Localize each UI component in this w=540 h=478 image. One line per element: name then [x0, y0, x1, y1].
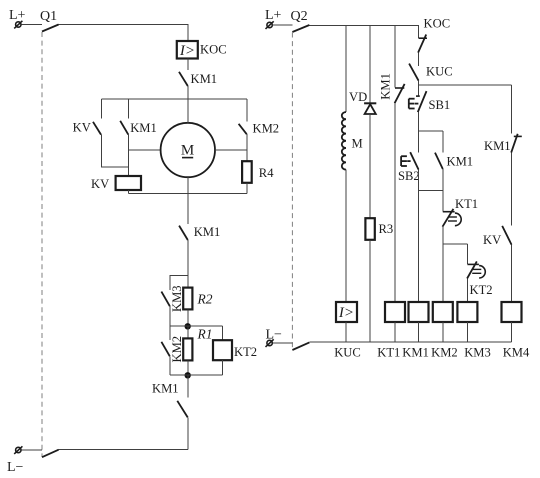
svg-text:KUC: KUC: [334, 346, 361, 360]
wire KT2 to KM3 coil: [466, 279, 468, 303]
wire armature top bus: [101, 98, 247, 100]
wire node to KT2 coil: [221, 326, 223, 340]
contact KM1 aux (seal-in): [435, 153, 443, 169]
wire KM1 contact to KV coil: [127, 135, 129, 176]
contact KV: [502, 226, 511, 245]
wire motor bottom: [187, 177, 189, 224]
wire bus to diode VD: [369, 26, 371, 104]
undervoltage relay coil KUC: [336, 302, 357, 322]
switch Q2 lower pole: [292, 342, 309, 350]
svg-text:KM1: KM1: [191, 72, 218, 86]
svg-text:KT2: KT2: [470, 283, 493, 297]
wire KM2 coil to bottom bus: [442, 322, 444, 342]
wire KT2 to bottom node: [221, 360, 223, 375]
wire KT1 contact down: [442, 227, 444, 244]
wire KM1 to R2 section: [187, 240, 189, 276]
wire field winding to KUC coil: [345, 170, 347, 302]
switch Q1 upper pole: [42, 25, 59, 32]
wire top to KM1 aux: [442, 131, 444, 152]
svg-text:KOC: KOC: [200, 43, 227, 57]
contact KM1 (armature): [120, 121, 128, 135]
svg-text:KV: KV: [73, 121, 91, 135]
wire node to KT1 contact: [442, 191, 444, 212]
svg-text:KV: KV: [91, 177, 109, 191]
switch Q1 lower pole: [42, 450, 59, 458]
diode VD: [364, 103, 376, 114]
svg-text:KM1: KM1: [447, 155, 474, 169]
node junction R2/R1: [170, 323, 223, 329]
contactor coil KM1: [409, 302, 429, 322]
node bottom junction: [170, 372, 223, 378]
svg-text:SB1: SB1: [429, 98, 451, 112]
contact KM2 (R1 shunt): [161, 342, 169, 357]
svg-text:KT1: KT1: [377, 346, 400, 360]
contactor coil KM3: [457, 302, 477, 322]
wire to KT2 contact: [466, 244, 468, 264]
wire KT1 coil to bottom bus: [394, 322, 396, 342]
terminal L- (left): [14, 446, 22, 454]
svg-text:KM2: KM2: [170, 336, 184, 363]
motor M armature: [161, 123, 215, 177]
time relay coil KT1: [385, 302, 405, 322]
wire to motor left terminal: [128, 149, 160, 151]
svg-text:KUC: KUC: [426, 65, 453, 79]
svg-text:KT1: KT1: [455, 197, 478, 211]
wire armature bottom bus: [128, 193, 246, 195]
wire KM1 to top bus: [187, 86, 189, 99]
wire bus to KM1 contact: [127, 99, 129, 119]
wire SB2 down: [418, 170, 420, 191]
wire control bottom bus: [309, 341, 511, 343]
wire motor right to KM2 branch: [215, 149, 247, 151]
wire KM1 break to KV contact: [511, 153, 513, 226]
wire KUC to SB1: [418, 81, 420, 97]
contact KUC: [409, 64, 418, 81]
contact KM1 (below motor): [179, 226, 188, 240]
terminal L+ (right): [266, 21, 274, 29]
contact KM3 (R2 shunt): [161, 292, 169, 307]
terminal L+ (left): [14, 21, 22, 29]
contact KM1 break (KM4 branch): [511, 134, 522, 153]
resistor R1: [183, 326, 192, 375]
svg-text:SB2: SB2: [398, 169, 420, 183]
wire R2 bypass top: [170, 276, 188, 290]
contactor coil KM4: [502, 302, 522, 322]
svg-text:L+: L+: [265, 8, 282, 23]
svg-text:L−: L−: [266, 328, 283, 343]
pushbutton SB2 (start): [401, 152, 418, 169]
wire L- to Q1: [21, 449, 42, 451]
contact KM1 break (KT1 feed): [395, 84, 405, 103]
svg-text:VD: VD: [349, 90, 367, 104]
contact KT2 time-delay: [467, 261, 485, 278]
wire bus to KM1 break contact: [394, 26, 396, 88]
wire to KM1 coil: [418, 191, 420, 302]
wire bus to motor top: [187, 99, 189, 123]
svg-text:KM1: KM1: [484, 139, 511, 153]
wire to KM2 coil: [442, 244, 444, 302]
wire bus to KV contact: [100, 99, 102, 119]
wire parallel top: [419, 130, 443, 132]
wire KOC to KUC contact: [418, 53, 420, 66]
contactor coil KM2: [433, 302, 453, 322]
wire diode to R3: [369, 114, 371, 218]
svg-text:R3: R3: [379, 222, 394, 236]
svg-text:KM4: KM4: [503, 346, 530, 360]
wire SB1 to parallel section: [418, 112, 420, 131]
contact KOC break: [418, 35, 427, 53]
wire bottom return: [59, 449, 188, 451]
wire KM1 break to KT1 coil: [394, 103, 396, 302]
wire L+ to Q1: [21, 24, 42, 26]
wire KOC to KM1: [187, 59, 189, 71]
wire KM3 coil to bottom bus: [466, 322, 468, 342]
svg-text:KM3: KM3: [170, 285, 184, 312]
wire KV contact down and over: [101, 135, 128, 167]
svg-text:KM1: KM1: [130, 121, 157, 135]
svg-text:KM1: KM1: [194, 225, 221, 239]
wire node to KT2 branch: [443, 243, 468, 245]
wire bus to field winding: [345, 26, 347, 113]
wire KV contact to KM4 coil: [511, 245, 513, 302]
wire control top bus: [309, 26, 418, 38]
svg-text:KM1: KM1: [402, 346, 429, 360]
svg-text:KM1: KM1: [378, 73, 392, 100]
resistor R2: [183, 276, 192, 327]
contact KV: [93, 122, 101, 135]
contact KM1 (line): [179, 72, 188, 86]
wire node to KM1 contact: [187, 375, 189, 398]
wire bus to KM2 contact: [246, 99, 248, 122]
svg-text:I>: I>: [179, 43, 195, 59]
wire R3 to bottom bus: [369, 240, 371, 342]
wire KUC coil to bottom bus: [345, 322, 347, 342]
svg-text:Q2: Q2: [291, 9, 308, 24]
wire KM1 aux down: [442, 169, 444, 191]
switch Q2 upper pole: [292, 25, 309, 32]
wire KM1 coil to bottom bus: [418, 322, 420, 342]
contact KM1 (bottom): [177, 401, 187, 418]
svg-text:I>: I>: [338, 305, 354, 321]
wire Q1 to KOC: [59, 25, 188, 42]
svg-text:KT2: KT2: [234, 345, 257, 359]
wire KV coil to bottom bus: [127, 190, 129, 194]
svg-text:KM3: KM3: [464, 346, 491, 360]
wire KM2 to R4: [246, 134, 248, 161]
svg-text:KM1: KM1: [152, 382, 179, 396]
svg-text:R1: R1: [197, 327, 213, 342]
terminal L- (right): [266, 339, 274, 347]
Q2 linkage (dashed): [291, 33, 293, 351]
svg-text:KM2: KM2: [431, 346, 458, 360]
svg-text:KOC: KOC: [424, 17, 451, 31]
wire KM2 to bottom node: [169, 356, 171, 375]
pushbutton SB1 (stop): [409, 91, 427, 112]
resistor R4: [242, 161, 252, 183]
wire top to SB2: [418, 131, 420, 152]
svg-text:KV: KV: [483, 233, 501, 247]
wire L+ to Q2: [273, 24, 293, 26]
wire R4 to bottom bus: [246, 183, 248, 194]
wire node to KM4 branch: [419, 84, 512, 86]
relay coil KT2: [213, 340, 232, 360]
wire branch down to KM1 break: [511, 85, 513, 134]
contact KT1 time-delay: [443, 209, 462, 227]
svg-text:L+: L+: [9, 8, 26, 23]
svg-text:Q1: Q1: [40, 9, 57, 24]
wire KM1 to bottom return: [187, 417, 189, 449]
wire KM3 to node: [169, 306, 171, 326]
contact KM2: [239, 124, 247, 134]
svg-text:M: M: [352, 137, 363, 151]
wire L- to Q2: [273, 342, 293, 344]
overcurrent relay coil KOC: [177, 41, 198, 59]
svg-text:KM2: KM2: [253, 122, 280, 136]
wire KM4 coil to bottom bus: [511, 322, 513, 342]
svg-text:R2: R2: [197, 292, 213, 307]
wire parallel bottom: [419, 190, 443, 192]
svg-text:L−: L−: [7, 460, 24, 475]
wire node to KM2 contact: [169, 326, 171, 340]
relay coil KV: [116, 176, 141, 190]
field winding M: [342, 112, 346, 170]
Q1 linkage (dashed): [41, 32, 43, 457]
svg-text:M: M: [181, 143, 194, 159]
svg-text:R4: R4: [259, 166, 274, 180]
resistor R3: [365, 218, 374, 240]
